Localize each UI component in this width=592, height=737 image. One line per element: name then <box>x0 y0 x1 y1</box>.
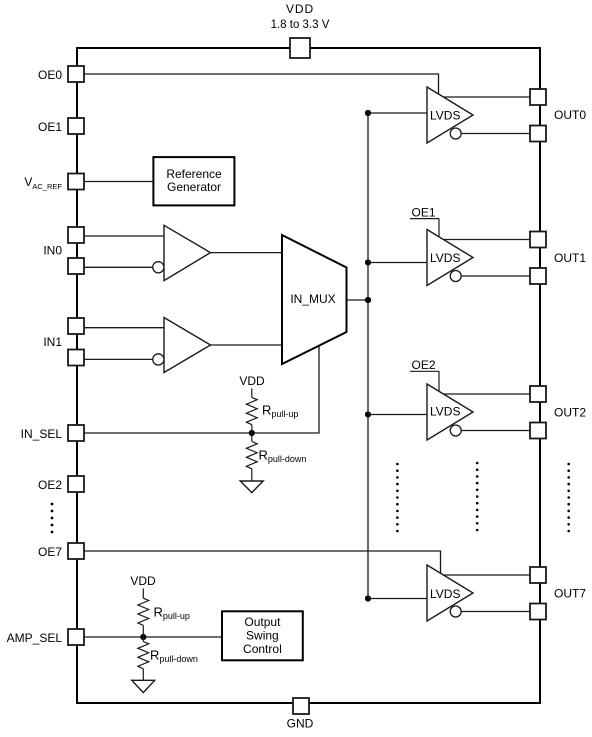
wire bus to U1 input <box>368 112 427 114</box>
wire U3 out- <box>461 430 531 432</box>
svg-text:GND: GND <box>287 717 314 731</box>
svg-text:VDD: VDD <box>286 2 314 16</box>
wire bus to U2 input <box>368 262 427 264</box>
resistor Rpull-down (AMP_SEL) <box>138 642 149 669</box>
wire IN1- <box>84 358 153 360</box>
ellipsis buffer column <box>476 462 479 532</box>
wire U4 out+ <box>443 574 530 576</box>
pin OE7 <box>68 543 84 559</box>
svg-text:OUT7: OUT7 <box>554 587 586 601</box>
wire VDD lead to Rpull-up <box>251 389 253 398</box>
wire IN0+ <box>84 235 164 237</box>
ellipsis left (OE2..OE7) <box>51 503 54 534</box>
buffer U1 LVDS (OUT0) <box>427 87 473 143</box>
wire U2 out+ <box>443 239 530 241</box>
svg-text:OUT2: OUT2 <box>554 406 586 420</box>
wire amp A output to IN_MUX <box>211 252 283 254</box>
svg-text:IN_MUX: IN_MUX <box>290 292 335 306</box>
wire amp B output to IN_MUX <box>211 344 283 346</box>
pin OUT0- <box>530 126 546 142</box>
svg-text:Output: Output <box>244 615 281 629</box>
svg-text:OE2: OE2 <box>38 478 62 492</box>
svg-text:OE0: OE0 <box>38 68 62 82</box>
label OE2 (buffer enable) <box>410 358 439 391</box>
pin GND <box>293 698 309 714</box>
pin OE2 <box>68 476 84 492</box>
wire IN1+ <box>84 327 164 329</box>
ground (IN_SEL pull-down) <box>240 481 263 493</box>
buffer U2 LVDS (OUT1) <box>427 230 473 286</box>
svg-text:Swing: Swing <box>246 629 279 643</box>
svg-text:IN_SEL: IN_SEL <box>21 427 63 441</box>
svg-text:LVDS: LVDS <box>430 108 460 122</box>
wire OE0 route <box>84 74 439 94</box>
junction AMP_SEL resistor node <box>140 634 146 640</box>
pin OUT1- <box>530 268 546 284</box>
pin OUT1+ <box>530 232 546 248</box>
wire node to Rpull-down (AMP_SEL) <box>142 637 144 642</box>
junction bus to U1 <box>365 110 371 116</box>
junction IN_SEL resistor node <box>249 430 255 436</box>
label OE1 (buffer enable) <box>410 205 439 236</box>
svg-text:OE1: OE1 <box>411 205 435 219</box>
pin IN1- <box>68 350 84 366</box>
buffer U3 LVDS (OUT2) <box>427 384 473 440</box>
svg-text:IN0: IN0 <box>43 244 62 258</box>
wire node to Rpull-down <box>251 433 253 442</box>
wire OE7 route <box>84 551 441 573</box>
svg-text:OUT1: OUT1 <box>554 251 586 265</box>
svg-text:VDD: VDD <box>239 374 265 388</box>
pin VDD <box>290 38 310 58</box>
pin OUT7- <box>530 604 546 620</box>
wire U4 out- <box>461 611 531 613</box>
ellipsis bus column <box>396 463 399 533</box>
wire vertical bus <box>367 113 369 599</box>
wire Rpull-down to ground (AMP_SEL) <box>142 669 144 681</box>
wire AMP_SEL net <box>84 636 222 638</box>
svg-text:AMP_SEL: AMP_SEL <box>7 631 63 645</box>
svg-text:OUT0: OUT0 <box>554 108 586 122</box>
svg-text:Generator: Generator <box>167 180 221 194</box>
resistor Rpull-up (AMP_SEL) <box>138 598 149 625</box>
pin IN0+ <box>68 227 84 243</box>
pin OE0 <box>68 66 84 82</box>
chip boundary <box>77 48 540 703</box>
svg-text:OE1: OE1 <box>38 120 62 134</box>
wire U1 out- <box>461 133 531 135</box>
wire U2 out- <box>461 275 531 277</box>
wire U1 out+ <box>443 96 530 98</box>
block Reference Generator <box>153 157 234 205</box>
pin IN1+ <box>68 318 84 334</box>
svg-text:LVDS: LVDS <box>430 587 460 601</box>
junction bus at IN_MUX output <box>365 297 371 303</box>
wire VDD lead to Rpull-up (AMP_SEL) <box>142 589 144 599</box>
wire U3 out+ <box>443 393 530 395</box>
wire IN0- <box>84 266 153 268</box>
ground (AMP_SEL pull-down) <box>132 680 155 692</box>
resistor Rpull-down (IN_SEL) <box>246 442 257 469</box>
mux IN_MUX <box>282 235 347 364</box>
svg-text:VDD: VDD <box>130 574 156 588</box>
svg-text:Reference: Reference <box>166 167 222 181</box>
svg-text:LVDS: LVDS <box>430 404 460 418</box>
wire bus to U3 input <box>368 414 427 416</box>
pin IN_SEL <box>68 425 84 441</box>
pin OUT0+ <box>530 89 546 105</box>
pin IN0- <box>68 258 84 274</box>
block Output Swing Control <box>222 611 303 660</box>
resistor Rpull-up (IN_SEL) <box>246 397 257 424</box>
svg-text:OE7: OE7 <box>38 545 62 559</box>
pin OE1 <box>68 118 84 134</box>
amp A (IN0 input buffer) <box>153 225 211 280</box>
wire IN_SEL net <box>84 346 319 433</box>
junction bus to U3 <box>365 411 371 417</box>
svg-text:1.8 to 3.3 V: 1.8 to 3.3 V <box>271 19 330 31</box>
junction bus to U4 <box>365 595 371 601</box>
junction bus to U2 <box>365 259 371 265</box>
buffer U4 LVDS (OUT7) <box>427 565 473 621</box>
wire Rpull-up to node (AMP_SEL) <box>142 625 144 637</box>
wire bus to U4 input <box>368 598 427 600</box>
svg-text:LVDS: LVDS <box>430 251 460 265</box>
pin OUT7+ <box>530 567 546 583</box>
amp B (IN1 input buffer) <box>153 318 211 373</box>
wire VAC_REF to Reference Generator <box>84 181 153 183</box>
pin OUT2- <box>530 423 546 439</box>
wire IN_MUX output bus <box>347 299 369 301</box>
wire Rpull-down to ground <box>251 469 253 481</box>
pin VAC_REF <box>68 174 84 190</box>
pin AMP_SEL <box>68 629 84 645</box>
svg-text:Control: Control <box>243 642 282 656</box>
ellipsis output column <box>567 463 570 533</box>
wire Rpull-up to node <box>251 425 253 433</box>
svg-text:OE2: OE2 <box>411 358 435 372</box>
pin OUT2+ <box>530 386 546 402</box>
svg-text:IN1: IN1 <box>43 335 62 349</box>
